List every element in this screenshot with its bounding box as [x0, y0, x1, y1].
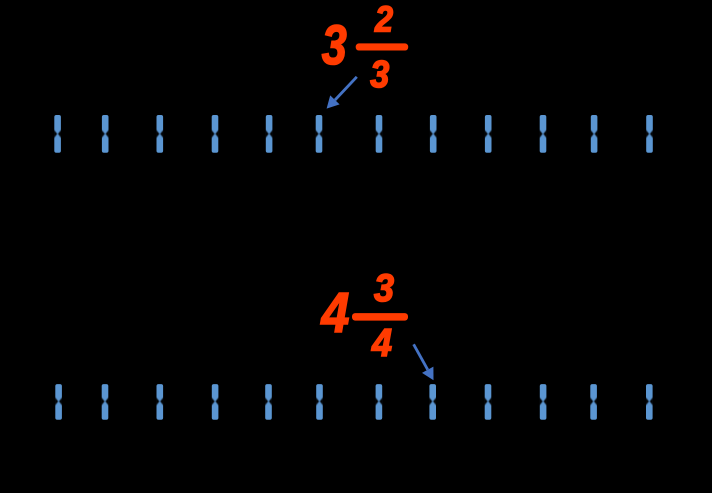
tick T4 on top number line [211, 115, 219, 153]
tick T5 on top number line [265, 115, 273, 153]
tick T7 on top number line [375, 115, 383, 153]
top number line (black horizontal line, invisible on black background) [22, 132, 688, 137]
tick B2 on bottom number line [101, 384, 109, 420]
tick T11 on top number line [590, 115, 598, 153]
tick B9 on bottom number line [484, 384, 492, 420]
bottom number line (black horizontal line, invisible on black background) [22, 399, 688, 404]
tick T12 on top number line [646, 115, 654, 153]
tick T10 on top number line [539, 115, 547, 153]
tick B7 on bottom number line [375, 384, 383, 420]
tick T8 on top number line [429, 115, 437, 153]
tick T3 on top number line [156, 115, 164, 153]
svg-text:4: 4 [371, 322, 392, 365]
arrow from 4 3/4 label to tick B8 [414, 344, 434, 380]
svg-text:3: 3 [370, 54, 389, 96]
tick B3 on bottom number line [156, 384, 164, 420]
tick B11 on bottom number line [590, 384, 598, 420]
tick T6 on top number line (3 2/3 position) [315, 115, 323, 153]
svg-text:4: 4 [321, 281, 350, 345]
label: fraction bar of 4 3/4 [352, 313, 408, 321]
tick B8 on bottom number line (4 3/4 position) [429, 384, 437, 420]
tick B5 on bottom number line [265, 384, 273, 420]
tick B1 on bottom number line [55, 384, 63, 420]
arrow from 3 2/3 label to tick T6 [327, 77, 357, 109]
tick B12 on bottom number line [645, 384, 653, 420]
tick B10 on bottom number line [539, 384, 547, 420]
svg-text:2: 2 [374, 0, 393, 39]
svg-text:3: 3 [374, 267, 394, 310]
tick B6 on bottom number line [316, 384, 324, 420]
tick T9 on top number line [484, 115, 492, 153]
tick T1 on top number line [54, 115, 62, 153]
tick T2 on top number line [101, 115, 109, 153]
label: fraction bar of 3 2/3 [356, 43, 409, 50]
svg-text:3: 3 [322, 13, 347, 76]
tick B4 on bottom number line [211, 384, 219, 420]
